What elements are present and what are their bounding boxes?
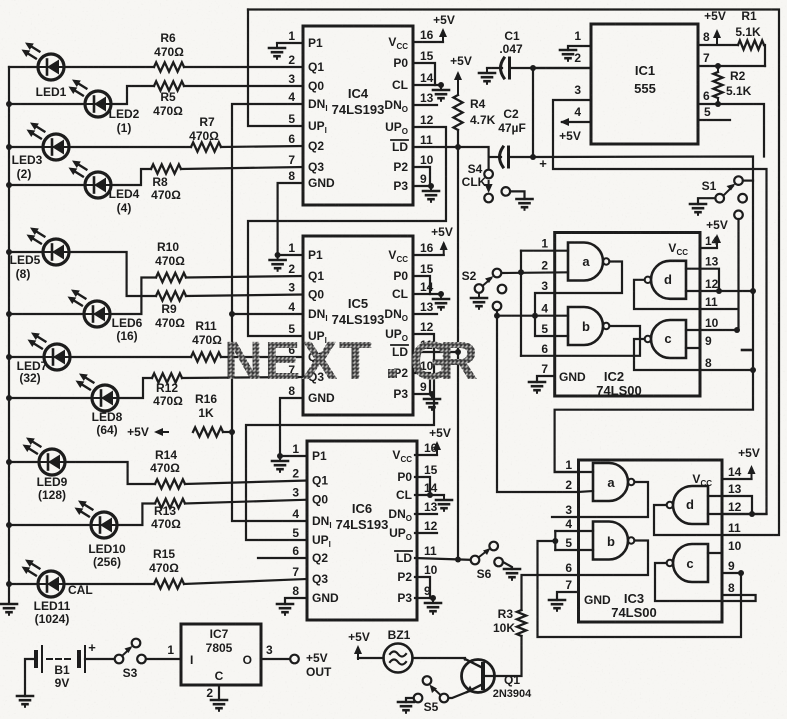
IC U-IC5 74LS193 bbox=[288, 236, 433, 415]
ground IC5 pin1 bbox=[270, 255, 286, 271]
resistor R2 5.1K bbox=[713, 66, 751, 104]
wire IC2 row4 from S2 bbox=[497, 315, 568, 317]
gate IC2-b bbox=[568, 307, 609, 345]
switch S4 CLK bbox=[462, 157, 493, 202]
wire +5V to BZ1 bbox=[358, 657, 384, 659]
wire IC4 pin1 bbox=[277, 42, 303, 44]
junction IC2 row10 bbox=[734, 327, 740, 333]
junction on LED bus bbox=[6, 144, 12, 150]
label LED8 bbox=[92, 410, 123, 437]
wire LED4 row bbox=[9, 167, 303, 185]
junction IC6 pin9 bbox=[430, 595, 436, 601]
wire IC2 row12 bbox=[686, 269, 753, 291]
wire IC2 row10 bbox=[686, 329, 737, 331]
resistor R8 bbox=[151, 164, 181, 202]
switch S1 bbox=[702, 176, 747, 219]
LED LED7 bbox=[28, 333, 71, 371]
junction S1 line IC2 pin8 bbox=[750, 367, 756, 373]
wire C2 row right bbox=[533, 157, 753, 473]
LED LED10 bbox=[75, 501, 118, 539]
wire IC3 row9 bbox=[722, 572, 741, 574]
+5V R4 bbox=[450, 54, 472, 95]
wire LED6 row bbox=[9, 276, 303, 314]
wire IC3 row1 bbox=[555, 471, 593, 473]
LED LED5 bbox=[27, 228, 70, 266]
ground S4 bbox=[517, 199, 533, 210]
resistor R1 5.1K bbox=[735, 9, 765, 66]
junction on LED bus bbox=[6, 101, 12, 107]
resistor R7 bbox=[189, 115, 221, 152]
wire B1 left to ground bbox=[25, 659, 36, 696]
wire IC2 row7 GND bbox=[537, 376, 555, 382]
junction IC5 pin1 bbox=[275, 252, 281, 258]
wire S2 to IC3 pin2 bbox=[497, 316, 579, 492]
wire IC3 pins13-12 tie bbox=[722, 496, 752, 514]
junction on LED bus bbox=[6, 354, 12, 360]
ground IC5 pin14 bbox=[433, 294, 449, 310]
junction IC4 pin9 bbox=[428, 183, 434, 189]
wire C1 to IC1 pin2 bbox=[533, 67, 591, 69]
junction IC2 pin12 tie bbox=[716, 288, 722, 294]
junction IC2 row4 bbox=[532, 313, 538, 319]
wire LED8 row bbox=[9, 377, 303, 398]
junction IC5 pin9 bbox=[429, 391, 435, 397]
wire S1 bottom contact down bbox=[737, 219, 739, 330]
junction on LED bus bbox=[6, 311, 12, 317]
wire IC3 pin14 Vcc bbox=[722, 478, 752, 480]
+5V BZ1 bbox=[348, 630, 370, 659]
wire IC1 pin4 +5V bbox=[559, 105, 591, 143]
IC U-IC1 555 bbox=[591, 24, 698, 144]
ground IC2 pin7 bbox=[529, 382, 545, 393]
resistor R9 bbox=[155, 291, 186, 330]
LED LED2 bbox=[69, 80, 112, 118]
junction on LED bus bbox=[6, 581, 12, 587]
resistor R3 10K bbox=[485, 607, 526, 676]
resistor R13 bbox=[151, 499, 185, 531]
wire IC6 pin8 GND bbox=[285, 598, 307, 604]
wire IC3 row10 into gate c bbox=[708, 552, 722, 554]
wire IC4 pin4 DN chain bbox=[232, 104, 307, 521]
wire IC6 pin11 LD to S6 bbox=[415, 558, 475, 560]
ground IC3 pin7 bbox=[549, 600, 565, 611]
ground S5 bbox=[398, 702, 414, 713]
wire IC3 gate-b out row6 to R3 bbox=[522, 541, 649, 611]
wire LED10 row bbox=[9, 500, 307, 525]
wire IC3 row7 GND bbox=[557, 592, 579, 600]
gate IC3-c bbox=[667, 544, 708, 582]
wire IC5 pin16 Vcc bbox=[413, 254, 444, 256]
junction IC3 pin9 bbox=[738, 570, 744, 576]
wire C1-C2 vertical bbox=[532, 68, 534, 157]
ground IC6 pin14 bbox=[436, 495, 452, 511]
+5V IC4 bbox=[433, 13, 455, 42]
label LED1 bbox=[36, 85, 67, 99]
junction on LED bus bbox=[6, 522, 12, 528]
junction on LED bus bbox=[6, 395, 12, 401]
wire IC3 row2 bbox=[579, 491, 594, 492]
buzzer BZ1 bbox=[384, 628, 413, 673]
wire IC6 pin12 stub bbox=[415, 532, 437, 534]
wire IC1 pin3 out bbox=[553, 83, 767, 514]
wire IC2 gate-b out to row6 bbox=[521, 326, 640, 356]
switch S2 bbox=[462, 269, 507, 311]
gate IC2-d bbox=[645, 261, 686, 299]
wire IC1 pin8 bbox=[698, 30, 738, 45]
IC U-IC3 74LS00 box bbox=[579, 460, 723, 622]
wire IC3 gate-a out row3 bbox=[552, 482, 648, 517]
LED LED6 bbox=[68, 290, 111, 328]
junction on LED bus bbox=[6, 459, 12, 465]
resistor R16 with +5V bbox=[127, 392, 232, 439]
LED LED1 bbox=[22, 43, 65, 81]
junction IC3 pin12 tie bbox=[749, 511, 755, 517]
junction on LED bus bbox=[6, 249, 12, 255]
wire IC2 pins13-12 tie bbox=[700, 269, 719, 291]
wire IC2 row1 bbox=[521, 250, 568, 252]
label LED6 bbox=[112, 316, 143, 343]
wire DN chain to IC5 pin4 bbox=[232, 313, 303, 315]
+5V IC3 bbox=[738, 446, 760, 479]
wire IC3 gate-d out row11 bbox=[654, 505, 722, 535]
wire IC4 pin16 Vcc bbox=[413, 41, 443, 43]
label IC3 pin numbers right bbox=[728, 465, 742, 595]
wire IC4 pin11 LD row bbox=[413, 147, 489, 157]
wire IC2 gate-d out row11 bbox=[634, 280, 737, 309]
gate IC2-a bbox=[568, 243, 609, 281]
IC U-IC7 7805 bbox=[167, 624, 273, 700]
ground IC4 pin14 bbox=[433, 85, 449, 101]
wire S3 to IC7 bbox=[146, 658, 181, 660]
wire IC4 pin15/14 tie bbox=[413, 63, 441, 85]
wire IC1 pin1 bbox=[568, 29, 591, 50]
wire BZ1 to Q1 collector bbox=[413, 658, 466, 660]
junction DN chain R16 bbox=[229, 429, 235, 435]
wire S1 common to ground bbox=[698, 198, 715, 204]
wire IC1 pin2 bbox=[533, 51, 591, 68]
label IC2 pin numbers left bbox=[541, 237, 548, 376]
wire IC2 left loop 1-6 bbox=[520, 251, 522, 356]
wire IC2 gate-a out to rows 3/4/5 bbox=[535, 262, 622, 337]
ground IC7 bbox=[211, 700, 227, 711]
ground IC5 pin9 bbox=[424, 394, 440, 410]
wire Q1 emitter to S5 bbox=[449, 692, 468, 698]
wire left cathode bus bbox=[8, 67, 10, 602]
LED LED3 bbox=[27, 123, 70, 161]
capacitor C1 .047 bbox=[487, 29, 533, 78]
+5V IC6 bbox=[429, 426, 451, 455]
wire top clock line / border bbox=[248, 10, 779, 536]
label LED5 bbox=[10, 253, 41, 281]
label IC3 Vcc bbox=[692, 472, 712, 488]
resistor R10 bbox=[155, 240, 186, 282]
ground IC4 pin9 bbox=[423, 186, 439, 202]
wire IC6 pin15/14 tie bbox=[415, 477, 444, 495]
junction IC2 row2 bbox=[518, 269, 524, 275]
wire IC5 pin10/9 tie bbox=[413, 373, 432, 394]
wire IC3 gate-c out row8 bbox=[655, 563, 756, 601]
wire LED2 row bbox=[9, 86, 303, 104]
wire S1 top to C2 line bbox=[743, 180, 753, 182]
wire IC1 pin7 bbox=[698, 51, 765, 66]
+5V IC1 pin8 bbox=[704, 9, 726, 43]
wire B1 to S3 bbox=[85, 658, 115, 660]
wire IC3 rows4-5 tie bbox=[555, 531, 593, 550]
gate IC3-a bbox=[593, 463, 634, 501]
LED LED11 bbox=[22, 560, 65, 598]
junction IC3 rows4/5 bbox=[552, 538, 558, 544]
wire IC2 row2 from S2 bbox=[502, 271, 568, 274]
junction S1 line IC2 pin12 bbox=[750, 288, 756, 294]
+5V IC2 bbox=[706, 218, 728, 248]
IC U-IC6 74LS193 bbox=[292, 441, 437, 620]
resistor R11 bbox=[191, 319, 222, 362]
wire IC2 gate-c in row9 bbox=[686, 347, 700, 349]
wire S5 to ground bbox=[406, 698, 414, 702]
IC U-IC2 74LS00 box bbox=[555, 233, 700, 399]
junction C1 out bbox=[530, 65, 536, 71]
capacitor C2 47uF bbox=[489, 107, 548, 171]
wire S2 lower contact bbox=[496, 311, 498, 316]
watermark NEXT.GR bbox=[224, 331, 478, 391]
wire IC3 row12 bbox=[708, 496, 767, 514]
wire IC2 pin14 Vcc bbox=[700, 247, 717, 249]
wire LED11 row bbox=[9, 579, 307, 584]
IC U-IC4 74LS193 bbox=[288, 26, 433, 205]
wire IC5 pin13 stub bbox=[413, 313, 437, 315]
wire IC4 pin8 GND to IC5 pin1 bbox=[278, 183, 303, 255]
label LED10 bbox=[88, 542, 126, 569]
switch S3 bbox=[115, 639, 146, 680]
gate IC3-b bbox=[593, 522, 634, 560]
resistor R12 bbox=[152, 373, 183, 408]
ground IC6 pin8 bbox=[277, 604, 293, 615]
ground left bus bottom bbox=[1, 604, 17, 615]
wire IC7 out bbox=[261, 658, 290, 660]
ground S2 bbox=[471, 293, 487, 309]
ground S6 bbox=[504, 569, 520, 580]
junction IC4 pin14 bbox=[438, 82, 444, 88]
wire IC6 pin16 Vcc bbox=[415, 454, 437, 456]
junction IC1 pin7 R2 bbox=[715, 63, 721, 69]
wire LED7 row bbox=[9, 356, 303, 358]
+5V IC5 bbox=[431, 225, 453, 255]
junction LD R4 bbox=[455, 144, 461, 150]
wire IC2 gate-c out row8 bbox=[634, 339, 753, 370]
mark dash bbox=[742, 349, 751, 352]
junction on LED bus bbox=[6, 182, 12, 188]
junction IC6 pin14 bbox=[427, 492, 433, 498]
switch S5 bbox=[414, 676, 449, 714]
switch S6 bbox=[471, 542, 512, 581]
wire IC4 pin10/9 tie bbox=[413, 167, 431, 186]
label IC3 pin numbers left bbox=[565, 458, 572, 592]
wire IC5 carry pin12 to IC6 pin5 bbox=[246, 334, 434, 540]
junction LD IC5 bbox=[455, 349, 461, 355]
switch S4 NC contact bbox=[502, 187, 525, 199]
resistor R5 bbox=[153, 81, 184, 118]
wire IC4 pin13 stub bbox=[413, 104, 437, 106]
gate IC3-d bbox=[667, 486, 708, 524]
junction C2 out bbox=[530, 154, 536, 160]
wire IC5 pin15/14 tie bbox=[413, 276, 441, 294]
wire IC5 pin11 LD bbox=[413, 351, 458, 353]
junction IC1 pin6 R2 bbox=[715, 101, 721, 107]
wire IC4 carry pin12 to IC5 pin5 bbox=[248, 127, 446, 336]
resistor R4 4.7K bbox=[453, 94, 495, 147]
wire LED1 row bbox=[9, 66, 303, 68]
LED LED9 bbox=[23, 438, 66, 476]
wire IC6 pin13 stub bbox=[415, 513, 437, 515]
ground S1 bbox=[690, 204, 706, 215]
label LED9 bbox=[37, 475, 68, 502]
wire IC1 pin5 stub bbox=[698, 105, 730, 120]
junction LD S6 bbox=[455, 557, 461, 563]
ground IC6 pin9 bbox=[425, 598, 441, 614]
resistor R14 bbox=[150, 448, 185, 489]
resistor R15 bbox=[149, 547, 184, 589]
junction S2 row4 bbox=[494, 313, 500, 319]
wire LED3 row bbox=[9, 146, 303, 147]
wire LED9 row bbox=[9, 462, 307, 484]
ground IC1 pin1 bbox=[560, 50, 576, 61]
ground B1 bbox=[17, 696, 33, 707]
gate IC2-c bbox=[645, 320, 686, 358]
wire IC5 pin8 GND to IC6 pin1 bbox=[280, 398, 307, 456]
terminal +5V OUT bbox=[290, 651, 332, 679]
label LED2 bbox=[109, 107, 140, 135]
ground IC6 pin1 bbox=[272, 456, 288, 472]
junction IC6 pin1 bbox=[277, 453, 283, 459]
wire LD chain vertical bbox=[457, 147, 459, 560]
wire IC7 pin2 ground bbox=[218, 685, 220, 700]
wire IC1 pin6 bbox=[698, 89, 764, 157]
wire LED5 row bbox=[9, 252, 303, 296]
wire IC4 pin5 clock from top bbox=[248, 10, 303, 127]
wire IC6 pin6 stub bbox=[258, 557, 307, 559]
label LED4 bbox=[109, 187, 140, 215]
resistor R6 bbox=[154, 31, 184, 72]
label LED3 bbox=[12, 153, 43, 181]
LED LED4 bbox=[69, 161, 112, 199]
transistor Q1 2N3904 bbox=[462, 659, 533, 700]
label IC2 pin numbers right bbox=[705, 234, 719, 370]
LED LED8 bbox=[76, 374, 119, 412]
junction IC5 pin14 bbox=[438, 291, 444, 297]
ground C1 bbox=[479, 68, 495, 84]
wire IC6 pin10/9 tie bbox=[415, 577, 433, 598]
label IC2 Vcc bbox=[668, 241, 688, 257]
junction DN chain IC5 bbox=[229, 311, 235, 317]
label LED11 CAL bbox=[34, 583, 93, 626]
battery B1 9V bbox=[36, 640, 96, 690]
ground IC4 pin1 bbox=[269, 43, 285, 59]
label LED7 bbox=[17, 359, 48, 385]
wire IC3 pin4 net to c loop bbox=[538, 541, 742, 637]
